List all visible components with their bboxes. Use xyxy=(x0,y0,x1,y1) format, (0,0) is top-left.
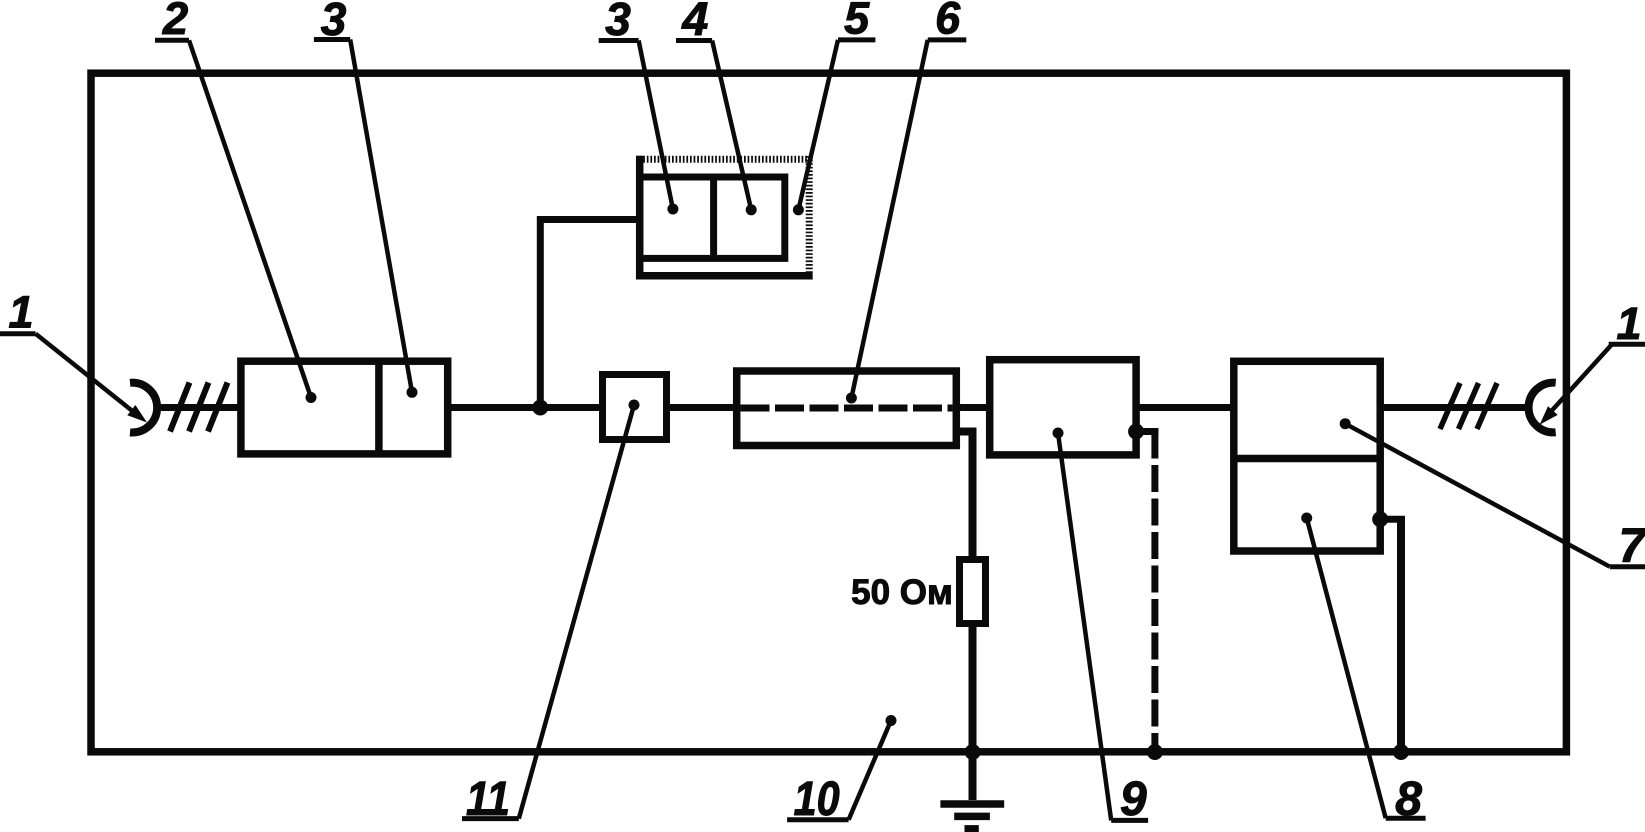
label 6 dot xyxy=(846,393,857,404)
svg-text:1: 1 xyxy=(1616,298,1641,349)
label 8 dot xyxy=(1301,513,1312,524)
shield enclosure 5 dotted top edge xyxy=(636,156,813,163)
label 11 dot xyxy=(629,400,640,411)
svg-text:1: 1 xyxy=(8,287,33,338)
label 1 right arrowhead xyxy=(1540,406,1558,425)
wire: resistor to ground junction xyxy=(969,624,977,801)
wire: resistor branch down to resistor xyxy=(969,432,977,560)
label 4 dot xyxy=(746,204,757,215)
label 1 left underline xyxy=(0,331,36,336)
divider between section 3 and 4 xyxy=(710,177,717,258)
label 7 underline xyxy=(1610,564,1645,569)
ground bar 1 xyxy=(940,800,1004,808)
label 1 right leader line xyxy=(1546,344,1612,417)
ground bar 3 xyxy=(965,825,979,832)
ground bar 2 xyxy=(954,813,990,821)
label 1 right underline xyxy=(1609,342,1645,347)
label 10 dot xyxy=(886,715,897,726)
svg-text:5: 5 xyxy=(844,0,870,44)
block 7 (two sections) xyxy=(1234,361,1380,551)
label 9 underline xyxy=(1111,818,1148,823)
wire: block 2/3 to block 11 xyxy=(448,404,606,411)
stub from block 9 junction to dashed line xyxy=(1136,428,1159,435)
label 6 underline xyxy=(928,37,967,42)
label 9 dot xyxy=(1053,428,1064,439)
junction dot block 7 branch/border xyxy=(1393,744,1409,760)
wire: block 7 branch down to border xyxy=(1397,519,1405,748)
wire: block 7 to right connector xyxy=(1379,404,1527,411)
label 3 first dot xyxy=(407,387,418,398)
wire: left connector to block 2/3 xyxy=(156,404,244,411)
junction dot on block 9 right edge xyxy=(1128,424,1144,440)
label 2 leader line xyxy=(189,40,311,397)
block 9 xyxy=(990,360,1136,455)
block 6 (delay line) xyxy=(737,371,957,446)
connector 1 right (arc symbol) xyxy=(1529,383,1556,433)
right feeder hatch marks xyxy=(1440,383,1497,429)
resistor R 50 Ом xyxy=(960,560,986,624)
label 10 leader line xyxy=(849,721,891,820)
left feeder hatch marks xyxy=(170,383,228,432)
label 3 second leader line xyxy=(639,41,673,210)
label 5 leader line xyxy=(798,40,838,210)
block 3/4 inside shield xyxy=(640,177,785,258)
shield enclosure 5 dotted right edge xyxy=(806,156,813,280)
divider between section 2 and 3 xyxy=(375,361,383,454)
label 8 underline xyxy=(1386,816,1426,821)
label 2 underline xyxy=(155,38,189,43)
label 4 underline xyxy=(676,38,712,43)
junction dot on block 7 right edge xyxy=(1372,511,1388,527)
shield enclosure 5 solid bottom edge xyxy=(636,272,813,280)
label 7 leader line xyxy=(1345,424,1610,567)
enclosure border (block 10) xyxy=(91,73,1566,752)
dashed center line of block 6 xyxy=(741,405,953,412)
label 5 dot xyxy=(793,204,804,215)
svg-text:2: 2 xyxy=(162,0,188,44)
label 11 underline xyxy=(462,816,519,821)
label 11 leader line xyxy=(519,405,634,819)
svg-text:6: 6 xyxy=(935,0,961,44)
label 5 underline xyxy=(838,37,875,42)
wire: riser from junction up to shield block xyxy=(540,220,643,408)
junction dot resistor/border xyxy=(965,744,981,760)
stub from block 6 to resistor branch xyxy=(956,428,976,436)
label 6 leader line xyxy=(851,40,927,398)
svg-text:50 Ом: 50 Ом xyxy=(851,573,953,612)
shield enclosure 5 solid left edge xyxy=(636,156,644,280)
block 2/3 (sections 2 and 3) xyxy=(241,361,448,454)
label 1 left leader line xyxy=(36,334,133,412)
label 3 second underline xyxy=(599,38,639,43)
junction dot dashed line/border xyxy=(1147,744,1163,760)
dashed control line down to border xyxy=(1151,432,1158,749)
wire: block 9 to block 7 xyxy=(1135,404,1237,411)
connector 1 left (arc symbol) xyxy=(130,383,157,433)
divider in block 7 xyxy=(1234,455,1380,463)
stub from block 7 junction xyxy=(1380,516,1405,523)
block 11 xyxy=(603,375,667,440)
label 8 leader line xyxy=(1307,518,1386,818)
junction node at riser xyxy=(532,400,548,416)
wire: block 11 to block 6 xyxy=(663,404,740,411)
label 3 first underline xyxy=(314,37,350,42)
label 3 second dot xyxy=(667,204,678,215)
label 2 dot xyxy=(306,392,317,403)
label 9 leader line xyxy=(1058,433,1111,820)
label 10 underline xyxy=(787,817,849,822)
label 7 dot xyxy=(1340,418,1351,429)
label 4 leader line xyxy=(712,41,751,210)
wire: block 6 to block 9 xyxy=(955,404,993,411)
label 1 left arrowhead xyxy=(127,405,147,423)
label 3 first leader line xyxy=(350,40,412,393)
